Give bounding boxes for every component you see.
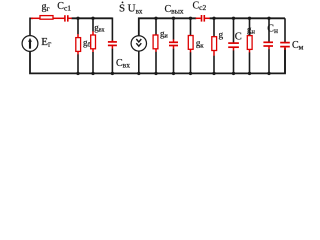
wire bottom bus [30,48,285,74]
resistor g_g (horizontal, in series) [31,16,65,20]
node top g_i [154,17,157,20]
wire top bus left section [30,18,112,36]
wire input node down to C_vx [111,18,113,42]
wire top bus output section [139,18,285,35]
capacitor C_C1 (series) [65,15,72,21]
svg-text:Cс1: Cс1 [57,1,71,13]
svg-text:C: C [235,32,242,43]
label C [235,32,242,43]
label C_vyx [165,4,184,16]
label C_vx [116,58,130,70]
label C_m [292,40,304,52]
node bottom junctions [76,72,270,75]
node top g_k [189,17,192,20]
label g_g [42,2,50,14]
svg-text:Cс2: Cс2 [193,1,207,13]
label E_g [41,36,52,49]
svg-text:SUвх: SUвх [119,3,143,16]
label C_n [267,23,278,35]
svg-text:gг: gг [42,2,50,14]
capacitor C_m (vertical shunt at right end) [280,18,290,73]
capacitor C_vyx (vertical shunt) [169,18,178,73]
svg-text:gи: gи [160,28,169,39]
label g_n [247,25,256,36]
label C_C1 [57,1,71,13]
label C_C2 [193,1,207,13]
svg-text:Cн: Cн [267,23,278,35]
capacitor C (vertical shunt) [228,18,239,73]
source E_g (EMF generator, circle with up arrow) [22,36,38,52]
label g [219,30,224,40]
resistor g (vertical) [212,18,217,73]
node top g_n [248,17,251,20]
node top C_n [267,17,270,20]
resistor g_b (vertical) [76,18,81,73]
label g_b [83,38,92,49]
svg-text:Eг: Eг [41,36,52,49]
node input junction top [76,17,79,20]
node top C_vyx [172,17,175,20]
svg-text:g: g [219,30,224,40]
label g_k [196,38,205,49]
node top g [212,17,215,20]
svg-text:Cм: Cм [292,40,304,52]
svg-text:gвх: gвх [94,22,104,33]
svg-text:Cвх: Cвх [116,58,130,70]
label g_vx [94,22,104,33]
label g_i [160,28,169,39]
svg-text:Cвых: Cвых [165,4,184,16]
resistor g_k (vertical) [188,18,193,73]
resistor g_vx (vertical) [91,18,96,73]
source S U_vx (dependent current source, circle with double chevron) [131,36,146,74]
node top C [232,17,235,20]
label S U_vx [119,2,143,16]
svg-text:gн: gн [247,25,256,36]
resistor g_i (vertical) [153,18,158,73]
node top g_vx [91,17,94,20]
svg-text:gк: gк [196,38,205,49]
capacitor C_C2 (series in top bus) [196,15,210,22]
capacitor C_n (vertical shunt) [263,18,273,73]
resistor g_n (vertical) [247,18,252,73]
capacitor C_vx (vertical shunt) [108,40,117,73]
